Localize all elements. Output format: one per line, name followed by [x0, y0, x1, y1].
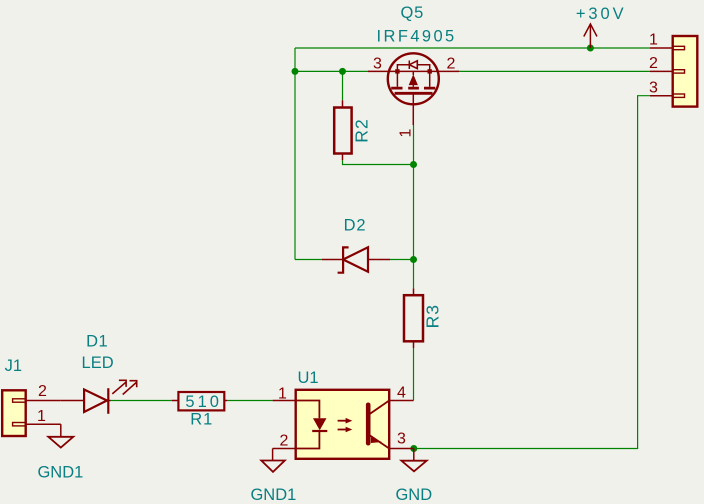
svg-text:R1: R1	[190, 411, 213, 429]
svg-text:IRF4905: IRF4905	[377, 27, 457, 45]
svg-text:R2: R2	[352, 118, 372, 142]
svg-text:D2: D2	[344, 216, 367, 234]
anode triangle	[343, 247, 368, 271]
junction at left row2	[292, 68, 299, 75]
svg-text:1: 1	[398, 128, 415, 137]
wire D2 row left	[295, 259, 322, 261]
emitter	[370, 436, 389, 449]
junction U1 pin3 / GND	[410, 445, 417, 452]
Q5 body circle	[388, 53, 439, 104]
wire U1 pin3 row to right column	[414, 96, 650, 449]
pins	[273, 400, 296, 402]
gate stem / pin 1	[412, 93, 414, 125]
connector J1	[2, 357, 61, 436]
diode D2	[322, 216, 390, 272]
svg-text:Q5: Q5	[400, 4, 424, 22]
ground GND1 under J1	[37, 424, 83, 481]
substrate arrow	[412, 71, 414, 75]
wire drain column	[413, 125, 415, 260]
wire row2 left (to Q5 pin 3)	[295, 70, 370, 72]
optocoupler U1	[273, 369, 414, 459]
body diode bridge	[397, 65, 429, 72]
svg-text:510: 510	[185, 393, 222, 411]
junction drain/D2	[410, 256, 417, 263]
svg-text:J1: J1	[5, 357, 22, 375]
ground GND1 under U1 pin2	[250, 449, 296, 504]
pin 1	[26, 423, 61, 425]
svg-text:3: 3	[649, 79, 658, 96]
cathode bar with hooks	[338, 247, 349, 272]
svg-text:+30V: +30V	[576, 5, 627, 23]
collector	[370, 401, 389, 414]
svg-text:4: 4	[397, 385, 406, 402]
right drop	[429, 71, 431, 86]
ground GND at U1 pin3	[395, 449, 432, 504]
S-D horizontal line with pins 3 and 2	[368, 70, 459, 72]
svg-text:1: 1	[37, 408, 46, 425]
resistor R3	[404, 288, 442, 348]
svg-text:GND1: GND1	[37, 464, 83, 482]
svg-text:2: 2	[38, 383, 47, 400]
power symbol +30V	[584, 24, 597, 48]
svg-text:GND1: GND1	[250, 486, 296, 504]
connector P right	[649, 32, 697, 107]
cathode bar	[107, 388, 109, 414]
wire R2 top	[342, 71, 344, 100]
svg-text:2: 2	[447, 55, 456, 72]
svg-text:1: 1	[649, 32, 658, 49]
internal led triangle	[313, 418, 327, 430]
left drop	[396, 71, 398, 86]
junction at R2 top	[339, 68, 346, 75]
wire column to R3	[413, 260, 415, 289]
wire R2 bottom to drain column	[343, 160, 414, 164]
anode triangle	[84, 390, 107, 413]
pin 2	[650, 70, 673, 72]
wire D2 to column	[390, 259, 414, 261]
junction at +30V	[587, 45, 594, 52]
svg-text:GND: GND	[395, 486, 432, 504]
resistor R1 value 510	[172, 392, 227, 429]
transistor Q5 IRF4905	[368, 4, 459, 137]
svg-text:3: 3	[373, 55, 382, 72]
svg-text:D1: D1	[86, 333, 108, 351]
wire row2 right (Q5 pin 2 to connector)	[457, 70, 650, 72]
body diode small symbol	[408, 61, 410, 70]
wire left vertical	[294, 48, 296, 260]
pin 1	[650, 47, 673, 49]
svg-text:U1: U1	[297, 369, 318, 387]
wire R1 to U1 pin1	[227, 400, 273, 402]
light arrows	[338, 420, 348, 422]
gate plate	[395, 92, 433, 95]
wire top horizontal net +30V	[295, 47, 650, 49]
body	[296, 390, 390, 459]
svg-text:LED: LED	[82, 354, 114, 372]
junction drain/R2	[410, 161, 417, 168]
wire D1 to R1	[111, 400, 172, 402]
pin 2	[26, 400, 61, 402]
svg-text:R3: R3	[422, 304, 442, 328]
svg-text:1: 1	[278, 386, 287, 403]
led arrows	[112, 380, 126, 394]
LED D1	[61, 333, 137, 414]
svg-text:2: 2	[280, 433, 289, 450]
svg-text:2: 2	[649, 55, 658, 72]
internal led wiring	[296, 401, 320, 449]
pin 3	[650, 95, 673, 97]
wire R3 bottom to U1 pin4	[413, 348, 415, 401]
resistor R2	[334, 100, 371, 160]
phototransistor base bar	[366, 405, 371, 443]
channel dashes	[391, 87, 435, 90]
svg-text:3: 3	[397, 431, 406, 448]
